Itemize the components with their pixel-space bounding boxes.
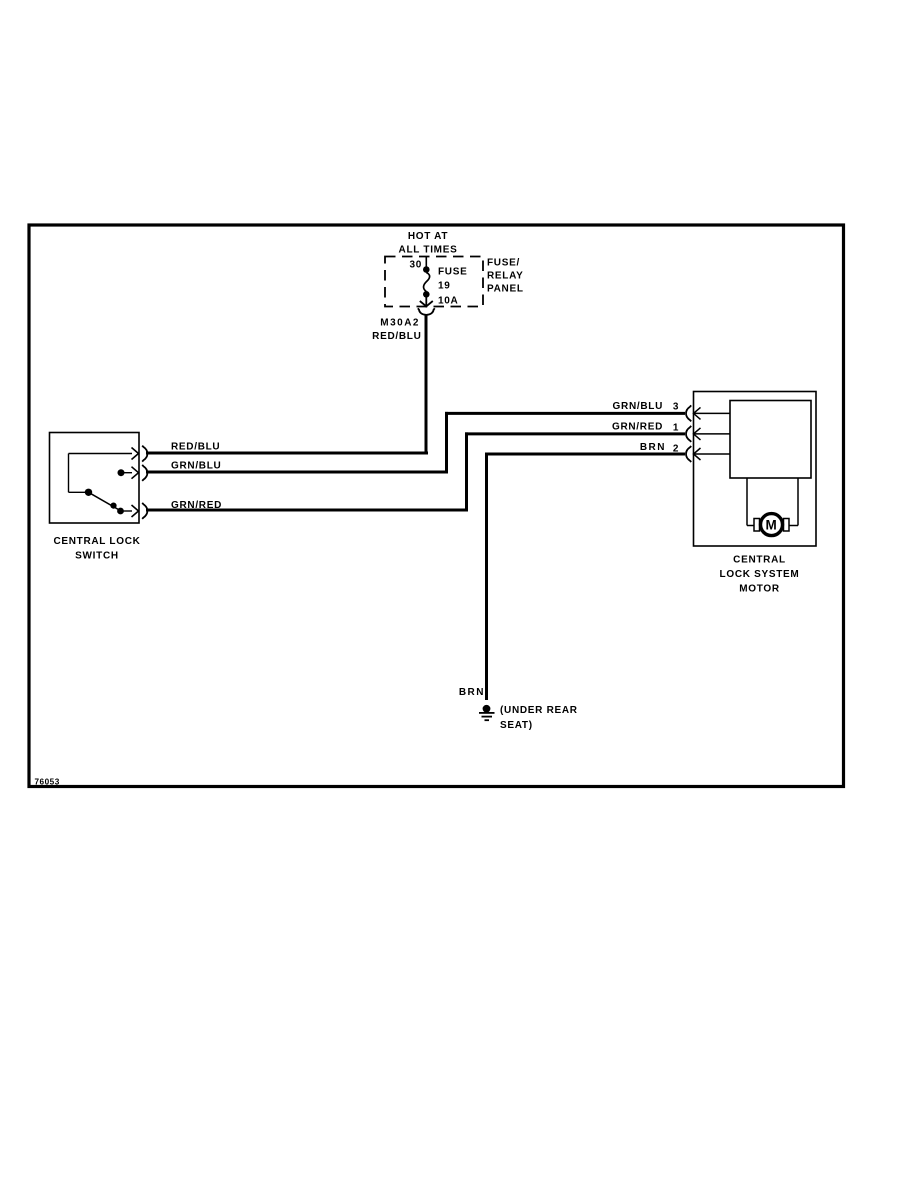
svg-text:SEAT): SEAT) <box>500 720 533 731</box>
fuse/relay panel dashed box <box>385 257 483 307</box>
svg-text:M30A2: M30A2 <box>380 318 420 329</box>
wire fuse output down to RED/BLU row <box>425 315 428 455</box>
switch lever <box>89 492 122 511</box>
svg-text:CENTRAL LOCK: CENTRAL LOCK <box>53 536 140 547</box>
central lock switch box <box>50 433 140 524</box>
svg-text:19: 19 <box>438 281 451 292</box>
svg-text:MOTOR: MOTOR <box>739 584 780 595</box>
motor pin 1 arrow + wire <box>694 428 731 440</box>
svg-text:RED/BLU: RED/BLU <box>372 331 421 342</box>
svg-text:76053: 76053 <box>35 777 60 786</box>
svg-text:RED/BLU: RED/BLU <box>171 442 220 453</box>
border frame <box>29 225 844 787</box>
motor internal wires <box>747 478 798 526</box>
switch contact row B dot + arrow <box>118 469 125 476</box>
svg-text:RELAY: RELAY <box>487 271 523 282</box>
svg-text:CENTRAL: CENTRAL <box>733 555 786 566</box>
motor pin 2 arrow + wire <box>694 448 731 460</box>
svg-text:1: 1 <box>673 423 679 434</box>
switch internal wire to pin A <box>69 454 133 493</box>
svg-text:GRN/BLU: GRN/BLU <box>613 401 663 412</box>
label BRN (right) + pin 2 <box>640 442 679 455</box>
svg-text:GRN/RED: GRN/RED <box>171 500 222 511</box>
label CENTRAL LOCK SWITCH <box>53 536 140 562</box>
label FUSE/RELAY PANEL <box>487 258 524 295</box>
svg-text:BRN: BRN <box>640 442 666 453</box>
fuse F19 10A symbol <box>423 266 430 297</box>
connector M30A2 (female arc) <box>418 308 435 315</box>
ground symbol (under rear seat) <box>479 705 495 720</box>
svg-text:GRN/BLU: GRN/BLU <box>171 461 221 472</box>
wire GRN/RED (switch to motor pin 1) <box>146 432 685 511</box>
motor brushes <box>754 519 760 532</box>
svg-text:FUSE: FUSE <box>438 267 467 278</box>
connector arcs at switch output <box>142 446 147 519</box>
svg-text:SWITCH: SWITCH <box>75 551 119 562</box>
label M30A2 / RED/BLU <box>372 318 421 343</box>
motor inner box <box>730 401 811 479</box>
svg-text:M: M <box>766 518 778 533</box>
svg-text:2: 2 <box>673 444 679 455</box>
svg-text:GRN/RED: GRN/RED <box>612 422 663 433</box>
svg-text:PANEL: PANEL <box>487 284 524 295</box>
switch pivot contact <box>85 489 92 496</box>
label GRN/BLU (right) + pin 3 <box>613 401 680 413</box>
label CENTRAL LOCK SYSTEM MOTOR <box>720 555 800 595</box>
switch contact row C wire + arrow <box>124 510 133 512</box>
wire from panel top to fuse <box>425 256 427 267</box>
svg-text:LOCK SYSTEM: LOCK SYSTEM <box>720 569 800 580</box>
svg-text:3: 3 <box>673 402 679 413</box>
svg-text:HOT AT: HOT AT <box>408 231 448 242</box>
switch arrow pin A <box>132 448 139 460</box>
svg-text:BRN: BRN <box>459 687 485 698</box>
svg-text:10A: 10A <box>438 296 458 307</box>
wire RED/BLU (switch to fuse) <box>146 452 428 455</box>
motor M circle <box>761 514 783 536</box>
svg-text:ALL TIMES: ALL TIMES <box>399 245 458 256</box>
motor pin 3 arrow + wire <box>694 407 731 419</box>
label FUSE 19 10A <box>438 267 467 307</box>
svg-text:FUSE/: FUSE/ <box>487 258 520 269</box>
arrow down from fuse to connector <box>420 296 433 308</box>
wire GRN/BLU (switch to motor pin 3) <box>146 412 685 474</box>
label (UNDER REAR SEAT) <box>500 705 578 731</box>
svg-text:(UNDER REAR: (UNDER REAR <box>500 705 578 716</box>
connector arcs at motor input <box>686 405 691 462</box>
svg-text:30: 30 <box>409 260 422 271</box>
central lock system motor outer box <box>694 392 817 547</box>
label HOT AT / ALL TIMES <box>399 231 458 256</box>
label GRN/RED (right) + pin 1 <box>612 422 679 434</box>
wire BRN (motor pin 2 to ground) <box>485 453 685 701</box>
